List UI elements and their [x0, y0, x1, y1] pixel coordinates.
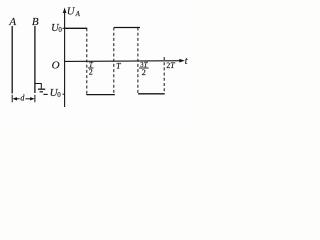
svg-text:A: A: [75, 10, 81, 18]
svg-text:0: 0: [58, 26, 62, 34]
svg-text:2: 2: [142, 67, 146, 77]
svg-text:0: 0: [57, 91, 61, 99]
svg-text:2T: 2T: [166, 61, 175, 70]
svg-text:B: B: [32, 16, 39, 28]
svg-text:O: O: [52, 59, 60, 71]
svg-text:A: A: [8, 16, 16, 28]
svg-text:2: 2: [89, 67, 93, 76]
svg-text:T: T: [116, 62, 121, 71]
